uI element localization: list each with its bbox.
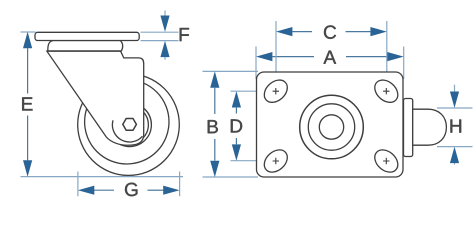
mounting plate xyxy=(257,72,404,177)
arrow G right xyxy=(163,186,179,195)
dimension line G left tail xyxy=(94,189,114,191)
label E xyxy=(22,97,32,110)
fork inner fold arc xyxy=(112,120,142,142)
cross mark bottom-left xyxy=(273,158,279,164)
arrow H down xyxy=(450,92,459,108)
arrow B down xyxy=(210,161,219,177)
dimension line B upper tail xyxy=(214,88,216,114)
arrow F down xyxy=(160,16,169,32)
extension line B bottom xyxy=(203,176,259,178)
arrow E top xyxy=(23,32,32,48)
bolt slot top-right xyxy=(370,76,402,107)
extension line C right xyxy=(386,21,388,81)
dimension line C right tail xyxy=(346,31,371,33)
extension line top of plate (E top) xyxy=(21,31,36,33)
extension line A right xyxy=(403,47,405,80)
label H xyxy=(450,120,461,133)
axle boss outer circle xyxy=(108,103,152,147)
dimension line G right tail xyxy=(148,189,164,191)
cross mark top-right xyxy=(383,88,389,94)
wheel inner tire circle xyxy=(85,80,169,164)
label A xyxy=(323,51,336,64)
label C xyxy=(324,25,336,38)
bolt slot bottom-right xyxy=(370,145,402,176)
dimension line H upper tail xyxy=(454,85,456,92)
arrow A right xyxy=(387,52,403,61)
extension line H bottom xyxy=(437,146,473,148)
arrow D down xyxy=(232,144,241,160)
axle boss inner circle xyxy=(111,106,149,144)
cross mark top-left xyxy=(273,88,279,94)
dimension line A left tail xyxy=(272,56,314,58)
extension line D top xyxy=(231,90,271,92)
fork tab edge xyxy=(404,99,413,157)
arrow C right xyxy=(370,27,386,36)
dimension line D lower tail xyxy=(235,138,237,144)
extension line C left xyxy=(275,21,277,81)
extension line G left xyxy=(77,172,79,197)
center boss outer circle xyxy=(300,95,364,159)
arrow H up xyxy=(450,147,459,163)
dimension line D upper tail xyxy=(235,108,237,114)
ground line (E bottom / baseline) xyxy=(21,176,184,178)
arrow A left xyxy=(256,52,272,61)
dimension line E upper tail xyxy=(27,48,29,93)
top plate side view xyxy=(35,32,139,40)
label D xyxy=(231,119,242,132)
extension line H top xyxy=(437,107,473,109)
swivel head xyxy=(48,41,123,51)
label B xyxy=(208,120,218,133)
extension line G right xyxy=(179,172,181,197)
arrow E bottom xyxy=(23,160,32,176)
bolt slot bottom-left xyxy=(260,145,292,176)
center boss middle circle xyxy=(308,104,354,150)
label F xyxy=(180,28,189,41)
extension line F top xyxy=(141,31,179,33)
arrow G left xyxy=(78,186,94,195)
cross mark bottom-right xyxy=(383,158,389,164)
dimension line E lower tail xyxy=(27,116,29,161)
arrow D up xyxy=(232,91,241,107)
arrow B up xyxy=(210,71,219,87)
wheel outer tire circle xyxy=(78,74,180,176)
arrow C left xyxy=(276,27,292,36)
dimension line F upper tail xyxy=(164,11,166,17)
wheel nose (top view) xyxy=(413,109,447,145)
dimension line B lower tail xyxy=(214,139,216,161)
bolt slot top-left xyxy=(260,76,292,107)
dimension line F lower tail xyxy=(164,57,166,60)
dimension line C left tail xyxy=(292,31,312,33)
extension line D bottom xyxy=(231,160,271,162)
extension line A left xyxy=(255,47,257,80)
label G xyxy=(125,183,137,196)
dimension line A right tail xyxy=(346,56,387,58)
arrow F up xyxy=(160,41,169,57)
fork leg xyxy=(47,51,144,145)
center boss inner circle xyxy=(319,115,343,139)
axle hex nut xyxy=(123,119,137,131)
dimension line H lower tail xyxy=(454,163,456,165)
extension line F bottom xyxy=(141,40,179,42)
extension line B top xyxy=(203,70,259,72)
